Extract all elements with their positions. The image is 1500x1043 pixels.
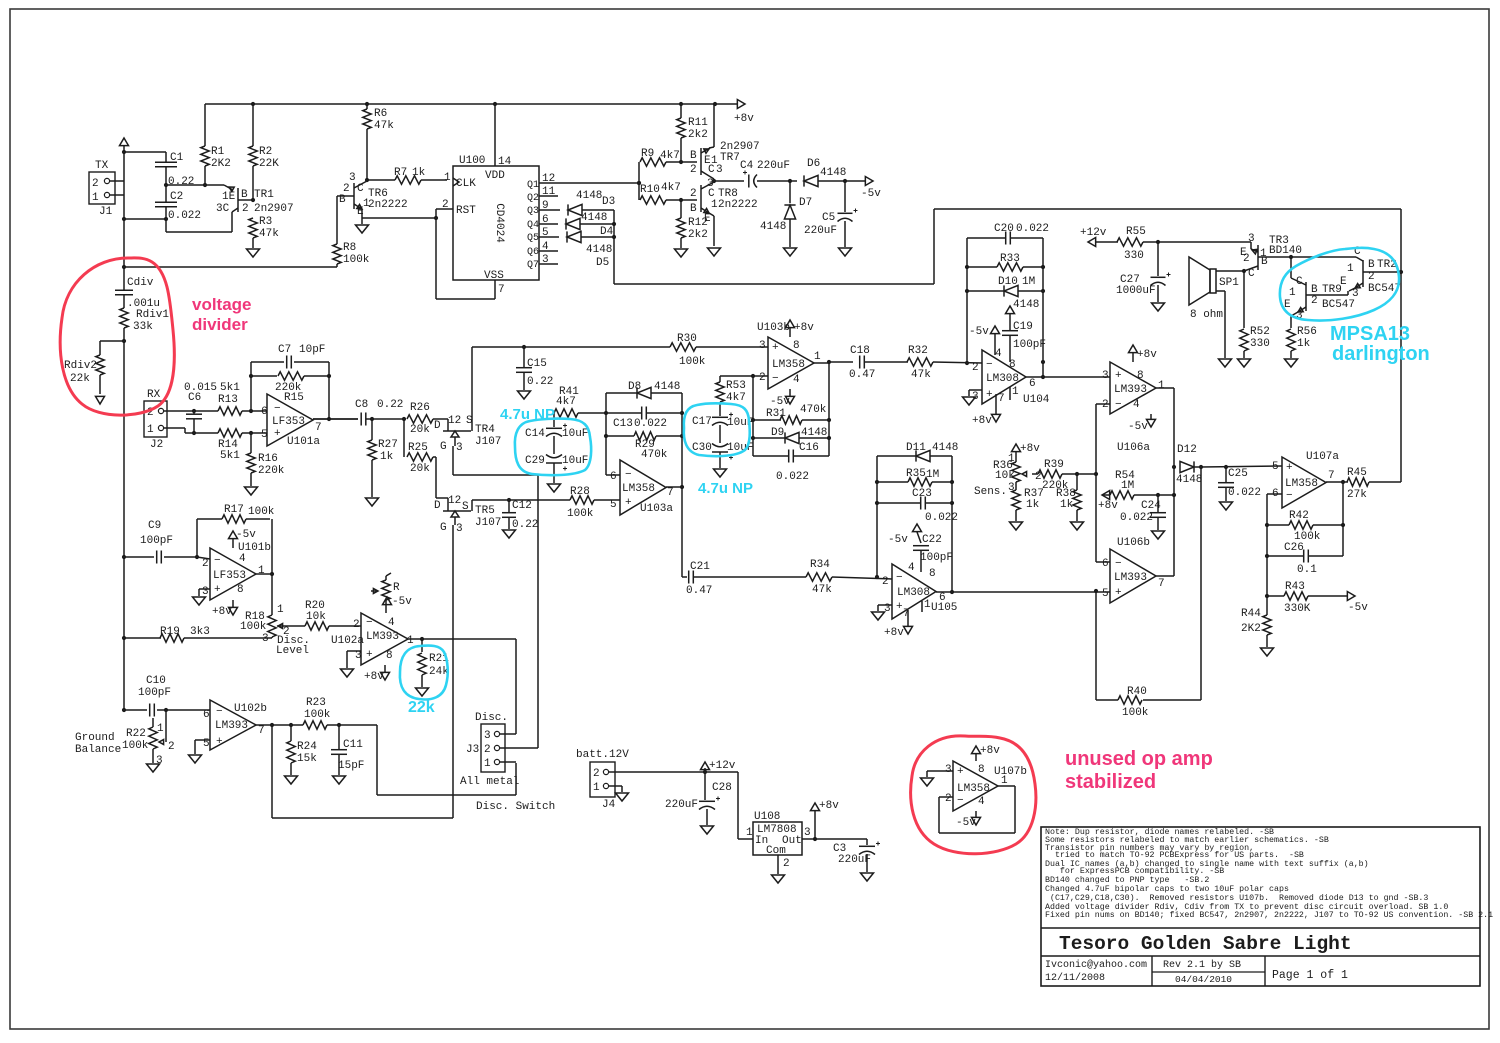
svg-text:20k: 20k [410, 463, 430, 475]
wire U103b pin2 [720, 374, 768, 378]
wire TR3 base run [1291, 256, 1356, 258]
wire R19 row [122, 636, 161, 640]
resistor Rdiv2 [64, 341, 104, 394]
svg-text:R11: R11 [688, 117, 708, 129]
svg-text:R26: R26 [410, 402, 430, 414]
svg-text:+: + [274, 428, 281, 440]
svg-text:6: 6 [610, 471, 617, 483]
svg-text:TR4: TR4 [475, 424, 495, 436]
ground U102b [189, 755, 202, 763]
resistor R30 [670, 333, 768, 368]
svg-text:8: 8 [1009, 359, 1016, 371]
transistor TR3 BD140 [1240, 233, 1302, 280]
wire U102b out row [256, 723, 303, 727]
svg-text:+8v: +8v [794, 322, 814, 334]
resistor R12 [677, 200, 708, 248]
svg-text:D3: D3 [602, 196, 615, 208]
resistor R27 [368, 419, 398, 497]
svg-text:B: B [690, 150, 697, 162]
wire U104 loop verticals [965, 238, 1045, 377]
svg-text:7: 7 [1158, 578, 1165, 590]
resistor R35 [877, 468, 952, 486]
ground U102a [341, 669, 354, 677]
svg-text:R1: R1 [211, 146, 225, 158]
svg-text:C24: C24 [1141, 500, 1161, 512]
ground C3 [861, 873, 874, 881]
capacitor C9 [122, 520, 199, 564]
wire into regulator [738, 772, 753, 839]
svg-text:U107a: U107a [1306, 451, 1339, 463]
ground D7 [784, 248, 797, 256]
wire R40 loop [1096, 467, 1201, 700]
ground R52 [1238, 359, 1251, 367]
wire TR4 source riser [471, 347, 473, 421]
svg-text:R39: R39 [1044, 459, 1064, 471]
capacitor C4 220uF [740, 160, 790, 188]
svg-text:−: − [625, 469, 632, 481]
transistor TR7 2n2907 [690, 104, 760, 179]
svg-text:-5v: -5v [861, 188, 881, 200]
svg-text:100k: 100k [304, 709, 331, 721]
svg-text:3: 3 [456, 442, 463, 454]
wire U100 pin2 RST [436, 199, 505, 299]
wire regulator out [802, 827, 867, 841]
svg-text:100pF: 100pF [138, 687, 171, 699]
wire C18 to R32 [865, 361, 908, 363]
svg-text:4k7: 4k7 [556, 396, 576, 408]
svg-text:Ivconic@yahoo.com: Ivconic@yahoo.com [1045, 959, 1147, 971]
ground C28 [701, 826, 714, 834]
svg-text:BD140 changed to PNP type -S: BD140 changed to PNP type -SB.2 [1045, 875, 1209, 885]
svg-text:2: 2 [759, 372, 766, 384]
wire U101a out [313, 418, 358, 420]
svg-text:VSS: VSS [484, 270, 504, 282]
ground C11 [333, 776, 346, 784]
svg-text:2: 2 [1102, 399, 1109, 411]
svg-text:D7: D7 [799, 197, 812, 209]
op-amp U104 LM308 [972, 348, 1050, 406]
svg-text:D12: D12 [1177, 444, 1197, 456]
svg-text:Q6: Q6 [527, 247, 539, 258]
svg-text:J1: J1 [99, 206, 113, 218]
svg-text:Q5: Q5 [527, 233, 539, 244]
svg-text:C1: C1 [170, 152, 184, 164]
svg-text:C: C [357, 183, 364, 195]
capacitor C16 [753, 442, 829, 483]
resistor R24 [287, 725, 317, 775]
resistor R15 [251, 372, 329, 404]
svg-text:100k: 100k [240, 621, 267, 633]
svg-text:D8: D8 [628, 381, 641, 393]
op-amp U102b LM393 [203, 700, 267, 750]
svg-text:47k: 47k [911, 369, 931, 381]
ground U107b [921, 778, 934, 786]
wire U105 loop verticals [875, 456, 954, 594]
svg-text:LM393: LM393 [215, 720, 248, 732]
connector J2 RX [144, 389, 167, 451]
resistor R20 [297, 600, 361, 630]
resistor R38 [1056, 474, 1081, 521]
node C1-C2 [164, 183, 224, 187]
resistor R44 [1241, 608, 1271, 647]
wire U105 pin1 stub [921, 601, 923, 612]
resistor R14 [194, 429, 267, 462]
power +8v U104 [972, 394, 1001, 427]
wire diode bus [612, 210, 616, 284]
wire feedback y267 [124, 266, 337, 268]
ground C5 [839, 248, 852, 256]
svg-text:2: 2 [353, 619, 360, 631]
wire sens riser [1094, 404, 1110, 562]
svg-text:100pF: 100pF [140, 535, 173, 547]
svg-text:BC547: BC547 [1322, 299, 1355, 311]
resistor R54 [1098, 470, 1174, 512]
wire C2 loop to TR1 collector [166, 219, 232, 232]
resistor R43 [1265, 581, 1348, 615]
capacitor C6 [184, 382, 217, 433]
wire R25 to TR5 [436, 457, 448, 498]
svg-text:LF353: LF353 [213, 570, 246, 582]
svg-text:Cdiv: Cdiv [127, 277, 154, 289]
wire U107b gnd pin3 [927, 771, 953, 777]
potentiometer R disc [371, 573, 400, 600]
svg-text:C25: C25 [1228, 468, 1248, 480]
svg-text:3: 3 [759, 340, 766, 352]
wire to C1 [124, 151, 166, 153]
svg-text:RST: RST [456, 205, 476, 217]
svg-text:2: 2 [1368, 271, 1375, 283]
capacitor C2 [155, 185, 201, 222]
svg-text:TR1: TR1 [254, 189, 274, 201]
ground TR8 [708, 248, 721, 256]
wire TR5 source row [472, 498, 570, 502]
svg-text:R44: R44 [1241, 608, 1261, 620]
svg-text:4148: 4148 [1013, 299, 1039, 311]
title block title [1041, 928, 1480, 955]
resistor R29 [606, 432, 682, 461]
ground R3 [247, 249, 260, 257]
svg-text:2: 2 [242, 203, 249, 215]
ground R44 [1261, 648, 1274, 656]
svg-text:14: 14 [498, 156, 512, 168]
svg-text:Q2: Q2 [527, 193, 539, 204]
svg-text:1k: 1k [1297, 338, 1311, 350]
connector J3 Disc Switch [460, 712, 555, 813]
wire disc loop2 [272, 725, 453, 818]
ground C15 [518, 391, 531, 399]
svg-text:R55: R55 [1126, 226, 1146, 238]
svg-text:4: 4 [542, 241, 549, 253]
svg-text:C4: C4 [740, 160, 754, 172]
power -5v arrow right [861, 177, 881, 201]
svg-text:100k: 100k [679, 356, 706, 368]
wire R32 to U104 [933, 362, 982, 363]
ground R24 [285, 776, 298, 784]
svg-text:R2: R2 [259, 146, 272, 158]
svg-text:1: 1 [1289, 287, 1296, 299]
svg-text:C16: C16 [799, 442, 819, 454]
wire U107a out [1326, 480, 1348, 484]
svg-text:−: − [772, 373, 779, 385]
diode D4 [566, 212, 614, 238]
svg-text:C18: C18 [850, 345, 870, 357]
svg-text:J107: J107 [475, 436, 501, 448]
svg-text:LM358: LM358 [772, 359, 805, 371]
ground R27 [366, 498, 379, 506]
power -5v R pot [383, 596, 413, 608]
svg-text:Tesoro Golden Sabre Light: Tesoro Golden Sabre Light [1059, 933, 1352, 955]
svg-text:Q4: Q4 [527, 220, 539, 231]
svg-text:R53: R53 [726, 380, 746, 392]
svg-text:U107b: U107b [994, 766, 1027, 778]
svg-text:3: 3 [349, 172, 356, 184]
svg-text:0.47: 0.47 [849, 369, 875, 381]
svg-text:0.022: 0.022 [1120, 512, 1153, 524]
resistor R31 [753, 404, 829, 424]
svg-text:1E: 1E [222, 191, 236, 203]
svg-text:4k7: 4k7 [726, 392, 746, 404]
ground R22 [147, 764, 160, 772]
svg-text:E: E [704, 213, 711, 225]
resistor R6 [363, 104, 394, 180]
svg-text:4148: 4148 [932, 442, 958, 454]
svg-text:4148: 4148 [586, 244, 612, 256]
capacitor C26 [1265, 542, 1343, 576]
svg-text:+: + [772, 342, 779, 354]
op-amp U101b LF353 [202, 542, 271, 600]
svg-text:1: 1 [924, 599, 931, 611]
resistor R28 [567, 486, 620, 520]
ground U105 [872, 612, 885, 620]
svg-text:1: 1 [1001, 775, 1008, 787]
svg-text:47k: 47k [374, 120, 394, 132]
svg-text:2: 2 [882, 576, 889, 588]
svg-text:47k: 47k [812, 584, 832, 596]
capacitor C21 [682, 561, 806, 597]
svg-text:D: D [434, 500, 441, 512]
ground C27 [1152, 303, 1165, 311]
wire U103b out row [827, 360, 853, 364]
svg-text:R22: R22 [126, 728, 146, 740]
svg-text:C13: C13 [613, 418, 633, 430]
svg-text:darlington: darlington [1332, 343, 1430, 365]
svg-text:U100: U100 [459, 155, 485, 167]
svg-text:R31: R31 [766, 408, 786, 420]
wire U104 output [1026, 375, 1110, 379]
svg-text:1: 1 [484, 758, 491, 770]
resistor R53 [716, 376, 746, 411]
svg-text:Q1: Q1 [527, 180, 539, 191]
resistor R52 [1240, 326, 1270, 358]
capacitor C23 [877, 488, 958, 524]
wire U100 Q1 pin12 [539, 173, 641, 185]
svg-text:6: 6 [203, 709, 210, 721]
svg-text:10uF: 10uF [562, 455, 588, 467]
svg-text:1: 1 [593, 782, 600, 794]
svg-text:1: 1 [746, 827, 753, 839]
wire TR6 base to R8 [337, 196, 341, 244]
svg-text:2: 2 [783, 858, 790, 870]
svg-text:20k: 20k [410, 424, 430, 436]
svg-text:C2: C2 [170, 191, 183, 203]
svg-text:2: 2 [442, 199, 449, 211]
wire U106b output [1156, 575, 1174, 577]
ground TR6 [356, 225, 369, 233]
capacitor C25 [1218, 467, 1261, 501]
svg-text:Rdiv2: Rdiv2 [64, 360, 97, 372]
resistor R40 [1118, 686, 1149, 719]
ground C12 [503, 530, 516, 538]
svg-text:U106b: U106b [1117, 537, 1150, 549]
wire regulator com [778, 855, 790, 874]
wire U100 Q4 pin6 [539, 214, 558, 226]
svg-text:for ExpressPCB compatibility.: for ExpressPCB compatibility. -SB [1045, 866, 1224, 876]
svg-text:4148: 4148 [801, 427, 827, 439]
svg-text:R27: R27 [378, 439, 398, 451]
svg-text:−: − [214, 555, 221, 567]
svg-text:divider: divider [192, 315, 248, 334]
svg-text:1: 1 [1347, 263, 1354, 275]
svg-text:D4: D4 [600, 226, 614, 238]
diode D3 [568, 190, 615, 216]
svg-text:2: 2 [690, 188, 697, 200]
svg-text:04/04/2010: 04/04/2010 [1175, 974, 1232, 985]
svg-text:+: + [214, 584, 221, 596]
ground C25 [1220, 502, 1233, 510]
wire U103a loop verticals [604, 393, 684, 487]
svg-text:+8v: +8v [972, 415, 992, 427]
svg-text:U106a: U106a [1117, 442, 1150, 454]
svg-text:2: 2 [484, 744, 491, 756]
svg-text:D6: D6 [807, 158, 820, 170]
wire U105 out [936, 591, 1110, 593]
title block notes [1041, 827, 1493, 986]
svg-text:B: B [241, 189, 248, 201]
op-amp U102a LM393 [331, 613, 414, 665]
svg-text:330K: 330K [1284, 603, 1311, 615]
diode D7 [760, 181, 812, 247]
wire U107b feedback [939, 786, 1015, 833]
transistor TR1 2n2907 [216, 185, 294, 232]
svg-text:LM358: LM358 [957, 783, 990, 795]
svg-text:10uF: 10uF [562, 428, 588, 440]
node TR7 TR8 output [712, 179, 744, 183]
ground U104 [963, 397, 976, 405]
svg-text:+8v: +8v [212, 606, 232, 618]
wire U100 Q7 pin3 [539, 254, 558, 266]
svg-text:220uF: 220uF [838, 854, 871, 866]
op-amp U106a LM393 [1102, 362, 1165, 454]
svg-text:3: 3 [484, 730, 491, 742]
svg-text:1k: 1k [380, 451, 394, 463]
svg-text:4.7u NP: 4.7u NP [698, 480, 753, 497]
power arrow node TX [120, 138, 129, 152]
capacitor C1 [155, 152, 194, 188]
svg-text:2k2: 2k2 [688, 229, 708, 241]
capacitor C8 [313, 399, 404, 426]
capacitor C15 [516, 347, 553, 390]
power +8v regulator [811, 800, 840, 839]
svg-text:C: C [1248, 268, 1255, 280]
svg-text:R43: R43 [1285, 581, 1305, 593]
resistor R25 [404, 419, 436, 475]
potentiometer R22 Ground Balance [122, 710, 175, 767]
resistor R8 [333, 242, 370, 267]
svg-text:2n2222: 2n2222 [368, 199, 408, 211]
svg-text:C11: C11 [343, 739, 363, 751]
svg-text:+: + [216, 736, 223, 748]
svg-text:R35: R35 [906, 468, 926, 480]
svg-text:220k: 220k [258, 465, 285, 477]
svg-text:4k7: 4k7 [661, 182, 681, 194]
svg-text:SP1: SP1 [1219, 277, 1239, 289]
ground Rdiv2 [96, 396, 105, 404]
svg-text:R19: R19 [160, 626, 180, 638]
svg-text:U105: U105 [931, 602, 957, 614]
svg-text:R15: R15 [284, 392, 304, 404]
IC U108 LM7808 [753, 811, 802, 857]
svg-text:−: − [986, 359, 993, 371]
svg-text:-5v: -5v [888, 534, 908, 546]
svg-text:C30: C30 [692, 442, 712, 454]
ground U108 [772, 875, 785, 883]
svg-text:22K: 22K [259, 158, 279, 170]
svg-text:G: G [440, 441, 447, 453]
svg-text:1: 1 [277, 604, 284, 616]
svg-text:1: 1 [444, 172, 451, 184]
svg-text:4: 4 [388, 617, 395, 629]
wire D12 out row [1201, 465, 1282, 469]
svg-text:R30: R30 [677, 333, 697, 345]
svg-text:R40: R40 [1127, 686, 1147, 698]
ground C24 [1152, 531, 1165, 539]
svg-text:+: + [625, 497, 632, 509]
svg-text:voltage: voltage [192, 295, 252, 314]
svg-text:3k3: 3k3 [190, 626, 210, 638]
power +8v arrow [734, 100, 754, 126]
power +12v node [701, 760, 736, 772]
resistor R39 [1038, 459, 1096, 492]
svg-text:1M: 1M [926, 469, 939, 481]
diode D8 [606, 381, 682, 399]
wire U103b loop verticals [751, 363, 831, 456]
wire TR4 gate to J3 pin2 [453, 475, 538, 748]
svg-text:330: 330 [1124, 250, 1144, 262]
svg-text:R23: R23 [306, 697, 326, 709]
resistor R37 [1012, 488, 1044, 521]
svg-text:Changed 4.7uF bipolar caps to: Changed 4.7uF bipolar caps to two 10uF p… [1045, 884, 1289, 894]
annotation text 4.7u NP 2 [698, 480, 753, 497]
svg-text:C23: C23 [912, 488, 932, 500]
svg-text:+: + [1286, 462, 1293, 474]
svg-text:11: 11 [542, 186, 556, 198]
resistor Rdiv1 [120, 308, 170, 341]
svg-text:0.1: 0.1 [1297, 564, 1317, 576]
text Ground Balance [75, 732, 121, 756]
svg-text:+8v: +8v [364, 671, 384, 683]
svg-text:2: 2 [92, 178, 99, 190]
svg-text:4: 4 [995, 348, 1002, 360]
svg-text:R17: R17 [224, 504, 244, 516]
power +8v sens [1008, 443, 1040, 465]
svg-text:Com: Com [766, 845, 786, 857]
svg-text:8: 8 [929, 568, 936, 580]
capacitor C24 [1120, 495, 1166, 530]
wire U100 Q2 pin11 [539, 186, 558, 198]
title block bottom row [1041, 956, 1480, 986]
svg-text:unused op amp: unused op amp [1065, 748, 1213, 770]
connector J1 TX [89, 160, 115, 218]
